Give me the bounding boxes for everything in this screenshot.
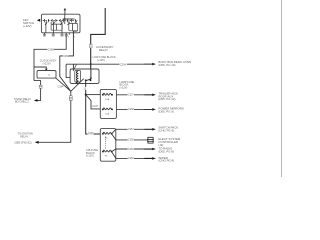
label C/B FUSE BLOCK [86, 148, 98, 157]
key switch inner block A [51, 24, 62, 30]
svg-text:(D05, PG 12): (D05, PG 12) [158, 97, 175, 101]
fuse F4 [102, 150, 113, 157]
relay coil [75, 71, 81, 84]
svg-text:BD CH9LC2: BD CH9LC2 [15, 101, 29, 104]
svg-text:(D05, PG 10): (D05, PG 10) [158, 63, 175, 67]
svg-text:C247: C247 [92, 105, 98, 108]
wire: esc row [112, 134, 148, 140]
arrow to ignition relay [35, 141, 39, 144]
wire: clock loop to t/sign relay [34, 81, 41, 101]
label C282 [63, 54, 70, 58]
node: junction relay feed / body builders branch [90, 63, 92, 65]
connector on ignition feed [69, 96, 72, 101]
frame edge right [281, 0, 283, 177]
svg-text:C260: C260 [128, 157, 134, 160]
accessory relay K1 box [70, 69, 99, 84]
fuse F3 [102, 132, 113, 139]
label ACCESSORY RELAY [96, 45, 114, 52]
wire: top feed to key switch [64, 8, 67, 14]
wire: battery feed to accessory relay [91, 8, 106, 69]
key switch common dashed bar [43, 20, 78, 22]
svg-text:C254: C254 [120, 62, 127, 66]
key switch inner drops [46, 14, 76, 32]
svg-text:(+12V): (+12V) [97, 58, 105, 62]
svg-text:(D05, PG 8): (D05, PG 8) [158, 149, 173, 153]
svg-text:(+12V): (+12V) [43, 61, 51, 65]
wire: to body builders conn [66, 63, 152, 65]
svg-text:C238: C238 [128, 108, 134, 111]
svg-text:15A: 15A [105, 113, 109, 116]
wire: bridge to relay box left [66, 64, 70, 77]
label CLOCK ASSY [40, 59, 57, 66]
arrow to t/sign relay [34, 99, 38, 102]
fuse F1 [102, 93, 113, 101]
svg-text:F6: F6 [105, 156, 108, 158]
terminal connector marks [43, 34, 67, 36]
label ELECT SYSTEM CONTROLLER [158, 137, 181, 147]
svg-text:C258: C258 [128, 139, 134, 142]
svg-text:C244: C244 [58, 85, 64, 88]
label SWITCH PACK [158, 126, 178, 133]
wire: relay diag to ignition feed [39, 79, 84, 143]
label WIPER [158, 156, 174, 163]
svg-text:C259: C259 [128, 148, 134, 151]
key switch S1 [41, 14, 80, 33]
wire W2: key switch jog to clock assy right [60, 31, 78, 91]
label POWER MIRRORS [158, 107, 183, 114]
arrow into clock assy [45, 69, 48, 71]
svg-text:C237: C237 [128, 94, 134, 97]
label LAMP FUSE BLOCK [120, 80, 135, 89]
wire: to ign fuse 1 [86, 94, 101, 96]
svg-text:C280: C280 [48, 48, 55, 51]
svg-text:12: 12 [48, 75, 51, 77]
bus dashed inside lamp block [104, 137, 106, 150]
key switch left arrow [37, 19, 40, 22]
wire: radio row [112, 149, 153, 152]
svg-text:C287: C287 [88, 132, 94, 135]
svg-text:(+12V): (+12V) [120, 85, 128, 89]
wire: switch pack row [112, 129, 153, 134]
label TO T/SIGN RELAY [14, 98, 31, 104]
label LOW FUSE BLOCK [93, 55, 116, 62]
wire: wiper row [112, 152, 153, 159]
wire: relay output down to fuse blocks [86, 80, 101, 134]
wire: power mirrors row [116, 108, 152, 110]
svg-text:1: 1 [74, 36, 76, 38]
clock assy box [37, 71, 56, 79]
wire: clock out diagonal [56, 78, 71, 92]
label C287 [88, 131, 95, 135]
svg-text:C282: C282 [63, 55, 69, 58]
wire A: key switch to clock assy [34, 33, 66, 81]
ign fuse block box [100, 89, 116, 118]
label TO IGNITION RELAY [15, 133, 33, 145]
label C280 [47, 48, 54, 52]
connector C-inline on relay feed [89, 45, 92, 48]
key switch contact arms [45, 23, 70, 26]
svg-text:(+12V): (+12V) [86, 154, 94, 158]
svg-text:(CHG PG 9): (CHG PG 9) [158, 129, 174, 133]
connector on t/sign wire [39, 85, 42, 88]
key switch contact ticks [45, 19, 76, 22]
wire: trailer aux row [116, 94, 152, 96]
svg-text:RELAY: RELAY [99, 48, 108, 52]
fuse F2 [102, 108, 113, 116]
key switch top bus [63, 18, 75, 20]
svg-text:(SEE 2F62-S2): (SEE 2F62-S2) [15, 142, 32, 145]
label C254 [119, 62, 126, 66]
svg-text:(D05, PG 9): (D05, PG 9) [158, 110, 173, 114]
label TRAILER AUX [158, 91, 178, 101]
label TO RADIO [158, 146, 173, 153]
connector: elect system controller [147, 137, 154, 143]
lamp fuse block box [100, 129, 116, 162]
svg-text:RELAY: RELAY [20, 135, 28, 138]
key switch contact dots [46, 21, 77, 22]
svg-text:(CHG PG 8): (CHG PG 8) [158, 159, 174, 163]
relay contact bar [86, 79, 91, 81]
relay contact feed [90, 69, 92, 79]
label BODY BUILDERS CONN [158, 60, 191, 67]
svg-text:(+12V): (+12V) [23, 24, 32, 28]
arrow to body builders conn [144, 63, 156, 66]
svg-text:C257: C257 [128, 128, 134, 131]
node: fuse feed junction [85, 94, 87, 96]
wire: bridge to relay coil [72, 64, 74, 71]
key switch bottom terminals [44, 33, 69, 36]
label KEY SWITCH [23, 18, 34, 28]
key switch inner block B [69, 23, 78, 30]
label 12 [83, 87, 88, 91]
svg-text:2: 2 [68, 36, 70, 38]
wire: to ign fuse 2 [86, 95, 101, 109]
svg-text:10A: 10A [105, 98, 109, 101]
wire: branch into clock top [34, 67, 46, 70]
